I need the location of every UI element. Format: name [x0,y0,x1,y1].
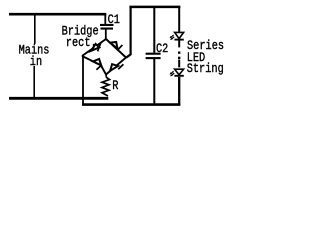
LED D1 triangle [175,32,184,38]
wire: led string bottom lead [178,77,180,106]
capacitor C2 lead lower [153,59,155,105]
dots of led string continuation [178,52,180,54]
LED D1 cathode bar [174,39,183,41]
wire: mains top lead [34,14,36,44]
svg-text:C2: C2 [156,41,168,57]
wire: step down to dc- rail [82,98,84,105]
bridge diode D-topleft (pointing to top corner) [91,43,101,52]
wire: led string lead between [178,41,180,48]
wire: mains bottom lead [33,66,35,98]
svg-text:String: String [187,61,224,77]
LED D2 triangle [175,69,184,75]
LED D2 emission arrows [170,71,175,76]
capacitor C1 lead lower [105,29,107,40]
svg-text:in: in [30,54,42,70]
bridge rectifier diamond edges [82,39,106,56]
resistor R zigzag [102,75,110,97]
svg-text:C1: C1 [108,12,120,28]
wire: dc+ vertical from bridge right corner [126,7,130,58]
wire: lower dc- rail [82,103,180,106]
capacitor C1 plates [100,24,114,26]
wire: led string lead above LED2 [178,60,180,68]
capacitor C2 plates [146,53,161,55]
LED D2 cathode bar [174,75,183,77]
wire: dc+ top rail [129,6,180,9]
wire: top mains rail [9,13,106,16]
svg-text:rect.: rect. [66,35,97,51]
bridge diode D-bottomleft (pointing to bottom corner) [93,59,102,70]
wire: bridge left corner to bottom rail [82,56,84,98]
svg-text:R: R [112,78,118,94]
bridge diode D-topright (pointing to right corner) [110,42,122,50]
LED D1 emission arrows [170,35,175,40]
capacitor C2 lead upper [153,7,155,53]
capacitor C1 lead upper [104,14,106,25]
wire: led string top lead [178,7,180,32]
wire: bottom mains rail [9,97,108,100]
bridge diode D-bottomright (pointing to right corner) [110,64,123,71]
